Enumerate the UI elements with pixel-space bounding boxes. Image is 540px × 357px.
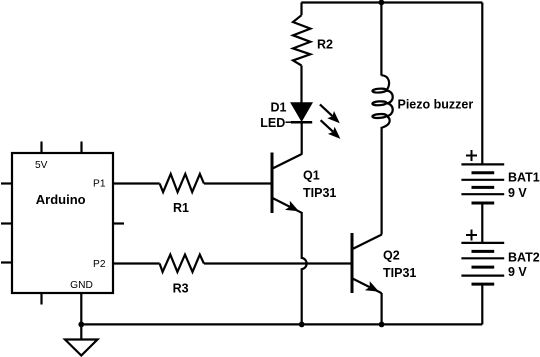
resistor R2 (293, 15, 310, 65)
svg-text:R3: R3 (173, 281, 189, 295)
ground symbol (65, 340, 98, 356)
battery BAT1 wire from top rail (481, 3, 483, 165)
BAT2 plate long 1 (461, 242, 504, 244)
LED light arrow 2 head (328, 127, 341, 139)
BAT1 plate long 3 (461, 193, 504, 195)
left pin tick 3 (1, 261, 12, 263)
BAT2 plate long 2 (461, 257, 504, 259)
left pin tick 2 (1, 222, 12, 224)
junction dot gnd / bottom rail (78, 322, 84, 328)
piezo buzzer coil (381, 75, 392, 127)
wire BAT1 to BAT2 (481, 203, 483, 243)
coil loop 2 (372, 101, 386, 106)
junction dot Q1 emitter / bottom rail (299, 322, 305, 328)
svg-text:9 V: 9 V (508, 186, 527, 200)
BAT1 plus sign (466, 150, 477, 161)
svg-text:5V: 5V (35, 160, 48, 171)
wire R3 to Q2 base (204, 262, 351, 264)
Q2 collector diagonal (352, 235, 382, 250)
right middle pin stub (113, 222, 124, 224)
svg-text:TIP31: TIP31 (303, 186, 336, 200)
wire R1 to Q1 base (204, 182, 271, 184)
svg-text:BAT2: BAT2 (508, 251, 540, 265)
wire R2 to LED (300, 66, 302, 105)
wire P2 to R3 (113, 262, 160, 264)
svg-text:P2: P2 (93, 259, 106, 270)
LED light arrow 1 head (327, 111, 340, 123)
coil loop 1 (372, 88, 386, 93)
Q2 emitter diagonal (352, 278, 382, 293)
Q2 emitter wire down to rail (381, 293, 383, 324)
svg-text:R2: R2 (317, 38, 333, 52)
svg-text:P1: P1 (93, 179, 106, 190)
BAT1 plate long 1 (461, 163, 504, 165)
BAT2 plate short 2 (472, 266, 495, 269)
junction dot Q2 emitter / bottom rail (379, 322, 385, 328)
transistor Q1 base bar (271, 153, 274, 214)
wire GND down from box (80, 293, 82, 340)
svg-text:TIP31: TIP31 (383, 266, 416, 280)
wire P1 to R1 (113, 182, 160, 184)
svg-text:R1: R1 (173, 201, 189, 215)
svg-text:Piezo buzzer: Piezo buzzer (398, 98, 474, 112)
LED light arrow 1 shaft (320, 104, 333, 116)
bottom pin tick (40, 293, 42, 305)
wire top rail to R2 (300, 3, 302, 16)
BAT1 plate short 2 (472, 186, 495, 189)
Q1 emitter arrowhead (285, 201, 299, 212)
top rail wire (301, 1, 482, 3)
leader line from LED label (286, 121, 293, 123)
wire BAT2 to bottom rail (481, 284, 483, 324)
BAT1 plate long 2 (461, 179, 504, 181)
Q1 collector wire up to LED (301, 122, 303, 154)
BAT2 plus sign (466, 230, 477, 241)
svg-text:GND: GND (70, 280, 93, 291)
D1 cathode bar (291, 121, 312, 124)
Arduino U1 box (12, 153, 113, 293)
svg-text:LED: LED (260, 116, 285, 130)
resistor R1 (160, 174, 204, 192)
BAT2 plate short 3 (472, 283, 495, 286)
svg-text:Arduino: Arduino (36, 192, 86, 207)
diode D1 LED triangle (292, 103, 311, 119)
Q1 emitter wire down with hop over P2 wire (302, 212, 307, 324)
svg-text:BAT1: BAT1 (508, 171, 540, 185)
junction dot top rail / piezo (379, 0, 385, 5)
BAT2 plate short 1 (472, 250, 495, 253)
pin 5V top tick 1 (40, 142, 42, 154)
svg-text:Q2: Q2 (383, 248, 400, 262)
svg-text:9 V: 9 V (508, 265, 527, 279)
Q2 collector wire up to piezo (381, 127, 383, 235)
Q1 emitter diagonal (272, 198, 302, 213)
left pin tick 1 (1, 182, 12, 184)
resistor R3 (160, 255, 204, 272)
transistor Q2 base bar (351, 233, 354, 293)
wire top rail down to piezo coil (380, 3, 382, 76)
svg-text:D1: D1 (271, 100, 287, 114)
BAT1 plate short 3 (472, 202, 495, 205)
LED light arrow 2 shaft (321, 120, 333, 132)
BAT2 plate long 3 (461, 275, 504, 277)
bottom rail wire (81, 323, 482, 325)
Q2 emitter arrowhead (365, 281, 379, 292)
Q1 collector diagonal (272, 154, 302, 169)
svg-text:Q1: Q1 (303, 168, 320, 182)
top tick 2 (80, 142, 82, 154)
coil loop 3 (372, 114, 386, 119)
BAT1 plate short 1 (472, 171, 495, 174)
